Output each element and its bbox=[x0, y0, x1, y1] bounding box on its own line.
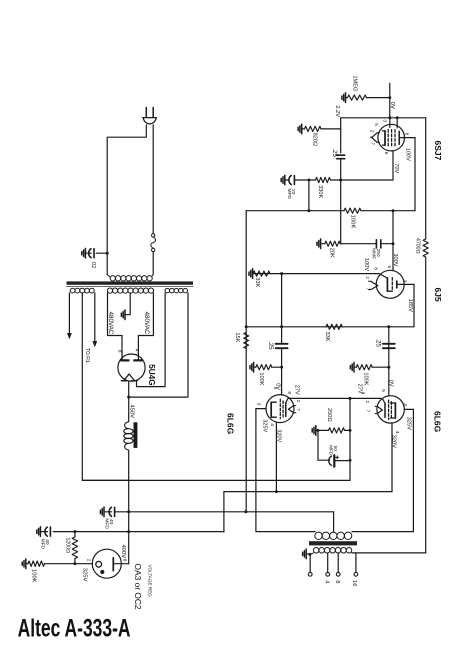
svg-text:2: 2 bbox=[85, 559, 91, 562]
svg-text:4700Ω: 4700Ω bbox=[414, 238, 420, 254]
svg-text:.25: .25 bbox=[375, 338, 382, 347]
svg-text:820Ω: 820Ω bbox=[312, 133, 318, 146]
svg-text:4: 4 bbox=[269, 423, 275, 426]
svg-text:7: 7 bbox=[295, 408, 301, 411]
svg-text:100K: 100K bbox=[258, 372, 264, 385]
wire 325V rail y531 left bbox=[53, 531, 224, 533]
svg-text:MFD: MFD bbox=[104, 518, 110, 529]
terminal 0 bbox=[308, 572, 312, 576]
svg-text:1MEG: 1MEG bbox=[352, 76, 358, 92]
node grid drop B bbox=[396, 116, 399, 119]
wire terminal 8 bbox=[337, 553, 339, 572]
resistor R 20K bbox=[316, 242, 318, 245]
svg-text:4: 4 bbox=[133, 349, 139, 352]
VR tube anode bar bbox=[112, 558, 114, 571]
capacitor C 50MFD cathode bbox=[318, 459, 330, 461]
ground for C.02 bbox=[81, 252, 83, 255]
svg-text:2: 2 bbox=[295, 400, 301, 403]
terminal 8 bbox=[336, 572, 340, 576]
svg-text:3: 3 bbox=[402, 403, 408, 406]
wire cathode-feedback line y480 bbox=[82, 479, 350, 481]
wire fil center-tap to cathode line bbox=[82, 293, 128, 481]
resistor R 4700ohm feedback bbox=[423, 239, 428, 257]
resistor R 33K (y327) bbox=[326, 324, 342, 329]
wire terminal 4 bbox=[327, 553, 329, 572]
wire rect-heater left to 5U4G pin8 bbox=[137, 293, 166, 387]
node y180 junction bbox=[339, 179, 342, 182]
svg-text:TO FIL.: TO FIL. bbox=[84, 348, 90, 365]
6L6G-L heater bbox=[288, 406, 293, 413]
svg-text:33K: 33K bbox=[254, 277, 260, 287]
wire 6J5 plate line (100V node) bbox=[253, 273, 379, 275]
capacitor C .25 input coupling bbox=[337, 154, 345, 156]
wire HV left to 5U4G plate pin6 bbox=[108, 293, 123, 353]
VR tube gas dot bbox=[100, 570, 104, 574]
wire choke to B+ rails bbox=[128, 450, 130, 564]
6SJ7 heater bbox=[372, 133, 378, 143]
wire 6L6G-L screen to rail bbox=[275, 422, 277, 492]
svg-text:2: 2 bbox=[364, 276, 370, 279]
6L6G-R plate bracket bbox=[394, 403, 396, 418]
svg-text:7: 7 bbox=[370, 142, 376, 145]
wire input stub 0V bbox=[389, 83, 391, 117]
wire x309 tie y180-y210 bbox=[308, 180, 310, 211]
node y327 tap bbox=[245, 325, 248, 328]
node right grid resistor bbox=[387, 366, 390, 369]
node coupling left bbox=[280, 272, 283, 275]
fuse F1 bbox=[152, 234, 155, 237]
svg-text:100K: 100K bbox=[363, 372, 369, 385]
pentode V2 6SJ7 envelope bbox=[378, 124, 405, 151]
beam tetrode V4a 6L6G left envelope bbox=[266, 395, 294, 423]
svg-text:27V: 27V bbox=[293, 385, 299, 395]
wire y180 to cathode corner (70V) bbox=[341, 151, 393, 180]
6L6G-L grids dashed bbox=[279, 399, 281, 418]
capacitor C 40MFD (325V rail) bbox=[49, 527, 51, 536]
wire 250ohm to 50MFD bbox=[317, 430, 319, 460]
svg-text:.25: .25 bbox=[331, 149, 337, 158]
svg-text:6L6G: 6L6G bbox=[225, 413, 235, 435]
node 250ohm left bbox=[317, 429, 320, 432]
svg-text:6J5: 6J5 bbox=[433, 288, 443, 302]
svg-text:100K: 100K bbox=[31, 569, 37, 583]
svg-text:450V: 450V bbox=[129, 405, 135, 419]
wire 400V rail to output transformer center tap bbox=[333, 512, 335, 532]
6J5 grid (dashed) bbox=[391, 278, 393, 292]
resistor R 1200ohm bbox=[74, 532, 76, 537]
node screen L bbox=[275, 490, 278, 493]
wire feedback riser x425 bbox=[425, 118, 427, 239]
6SJ7 cathode bar bbox=[398, 131, 400, 144]
wire y118 corner down x341 bbox=[340, 118, 342, 153]
capacitor C 20MFD cathode bypass bbox=[280, 178, 282, 181]
svg-text:7: 7 bbox=[364, 410, 370, 413]
svg-text:1200Ω: 1200Ω bbox=[65, 538, 71, 554]
svg-text:.25: .25 bbox=[267, 341, 274, 350]
AC plug P1 bbox=[145, 108, 147, 118]
svg-text:100V: 100V bbox=[405, 148, 411, 161]
svg-text:70V: 70V bbox=[393, 163, 399, 173]
node grid drop A bbox=[388, 116, 391, 119]
resistor R 250ohm cathode bbox=[311, 429, 313, 432]
wire VR anode to B+ vertical bbox=[113, 563, 128, 565]
VR tube cathode circle bbox=[96, 561, 102, 567]
node rail400 bbox=[127, 510, 130, 513]
wire rect-heater right to B+ node bbox=[129, 293, 188, 397]
svg-text:2: 2 bbox=[364, 400, 370, 403]
wire HV right to 5U4G plate pin4 bbox=[138, 293, 153, 353]
resistor R 33K (plate load) bbox=[248, 272, 250, 275]
svg-text:0V: 0V bbox=[389, 102, 395, 109]
transformer T1 core bbox=[67, 281, 194, 284]
node 330K junction bbox=[307, 209, 310, 212]
svg-text:3: 3 bbox=[401, 280, 407, 283]
svg-text:20K: 20K bbox=[329, 248, 335, 258]
ground 40MFD-1 bbox=[99, 510, 101, 513]
power transformer T1 primary winding bbox=[110, 276, 115, 281]
node AC1 bbox=[106, 252, 109, 255]
6J5 cathode bar bbox=[396, 281, 398, 288]
svg-text:2: 2 bbox=[369, 130, 375, 133]
wire 6L6G-R plate down bbox=[352, 409, 413, 531]
node VR input bbox=[73, 562, 76, 565]
6L6G-L plate lead pin3 bbox=[256, 408, 266, 410]
node 15K feed bbox=[244, 510, 247, 513]
choke core bar bbox=[134, 422, 138, 448]
svg-text:5: 5 bbox=[380, 389, 386, 392]
wire left coupling vertical bbox=[281, 274, 283, 344]
6L6G-R heater bbox=[377, 406, 382, 413]
wire right coupling vertical bbox=[388, 327, 390, 396]
svg-text:5: 5 bbox=[373, 123, 379, 126]
node cathode bus center bbox=[349, 397, 352, 400]
capacitor C 250MMF bbox=[375, 240, 377, 248]
node 50MFD right bbox=[349, 459, 352, 462]
svg-text:3: 3 bbox=[381, 119, 387, 122]
svg-text:6SJ7: 6SJ7 bbox=[433, 141, 443, 161]
svg-text:5U4G: 5U4G bbox=[147, 364, 156, 385]
node 1MEG junction bbox=[388, 96, 391, 99]
wire grid line y118 bbox=[341, 117, 426, 119]
voltage regulator tube V5 envelope bbox=[92, 549, 121, 578]
svg-text:4: 4 bbox=[368, 136, 374, 139]
wire fil-B with arrow bbox=[94, 293, 96, 343]
svg-text:0V: 0V bbox=[274, 383, 280, 390]
T1 filament winding (to output tube heaters) bbox=[70, 288, 75, 293]
svg-text:8: 8 bbox=[404, 133, 410, 136]
wire cathode bus bbox=[288, 397, 381, 399]
T1 rectifier heater winding bbox=[165, 288, 170, 293]
svg-text:8: 8 bbox=[334, 580, 340, 583]
svg-text:320V: 320V bbox=[390, 435, 396, 448]
wire 6L6G-R screen to rail bbox=[391, 423, 393, 492]
resistor R 820ohm cathode bbox=[297, 127, 299, 130]
wire terminal 0 bbox=[309, 554, 311, 572]
ground HV center tap bbox=[120, 313, 122, 316]
wire 6J5 cathode to y327 line bbox=[246, 284, 414, 326]
svg-text:27V: 27V bbox=[356, 384, 362, 394]
wire secondary left to ground bbox=[310, 553, 314, 555]
wire plug-right to fuse bbox=[152, 125, 154, 234]
svg-text:VOLTAGE REG: VOLTAGE REG bbox=[148, 565, 153, 598]
svg-text:33K: 33K bbox=[324, 332, 330, 342]
wire 6J5 grid drop bbox=[392, 211, 394, 271]
svg-text:325V: 325V bbox=[82, 568, 88, 582]
wire plug-left to primary bbox=[107, 125, 146, 275]
svg-text:Altec A-333-A: Altec A-333-A bbox=[18, 614, 131, 642]
svg-text:325V: 325V bbox=[406, 417, 412, 430]
wire plate-supply rail y210 bbox=[246, 210, 344, 212]
6L6G-R grids dashed bbox=[388, 400, 390, 419]
wire 20K to 250MMF bbox=[341, 243, 377, 245]
output transformer T2 primary bbox=[315, 532, 322, 539]
node 6J5 grid feed bbox=[392, 209, 395, 212]
terminal 16 bbox=[354, 572, 358, 576]
5U4G filament bbox=[124, 374, 135, 381]
6J5 plate entry diagonal bbox=[379, 273, 387, 278]
wire 400V rail y511 bbox=[115, 511, 333, 513]
wire 5U4G cathode to choke (450V B+) bbox=[128, 381, 130, 421]
5U4G plate pin 6 bbox=[121, 352, 123, 359]
wire screen rail drop to y511 rail bbox=[223, 492, 225, 532]
wire cathode network vertical bbox=[349, 398, 351, 480]
svg-text:MMF: MMF bbox=[370, 248, 376, 259]
svg-text:15K: 15K bbox=[234, 333, 240, 343]
resistor R 100K bias bleeder bbox=[21, 562, 23, 565]
svg-text:6L6G: 6L6G bbox=[432, 411, 442, 433]
beam tetrode V4b 6L6G right envelope bbox=[377, 396, 404, 423]
6J5 heater bbox=[371, 281, 378, 289]
capacitor C.02 line cap bbox=[96, 252, 107, 254]
node 1200ohm top bbox=[73, 530, 76, 533]
svg-text:MFD: MFD bbox=[286, 189, 292, 200]
wire HV center tap bbox=[125, 293, 130, 315]
svg-text:480VAC: 480VAC bbox=[143, 312, 150, 335]
svg-text:100V: 100V bbox=[363, 258, 369, 271]
wire 6L6G-L plate down bbox=[256, 409, 315, 532]
6SJ7 grid entries bbox=[389, 118, 391, 128]
node 20MFD junction bbox=[307, 179, 310, 182]
ground T2 secondary bbox=[302, 552, 304, 555]
triode V3 6J5 envelope bbox=[376, 270, 404, 298]
resistor R 1MEG grid return bbox=[341, 96, 343, 99]
svg-text:4: 4 bbox=[394, 431, 400, 434]
ground 40MFD-2 bbox=[36, 530, 38, 533]
svg-text:MFD: MFD bbox=[328, 445, 334, 456]
svg-text:3: 3 bbox=[255, 403, 261, 406]
filter choke L1 bbox=[125, 422, 129, 429]
wire fil-A with arrow bbox=[68, 293, 70, 335]
resistor R 330K bbox=[316, 177, 331, 182]
node secondary-left bbox=[308, 553, 311, 556]
node 250ohm right bbox=[349, 429, 352, 432]
T2 secondary bbox=[313, 548, 319, 554]
node B+ 450V bbox=[127, 396, 130, 399]
5U4G plate pin 4 bbox=[137, 352, 139, 359]
svg-text:0V: 0V bbox=[387, 380, 393, 387]
node right coupling bbox=[387, 325, 390, 328]
svg-text:7: 7 bbox=[364, 288, 370, 291]
wire feedback from secondary bbox=[356, 552, 426, 554]
capacitor C 40MFD (400V rail) bbox=[114, 507, 116, 516]
rectifier tube V1 5U4G envelope bbox=[118, 354, 145, 381]
wire rail to 6SJ7 cathode pin8 (100V) bbox=[414, 138, 416, 211]
wire x341 to 20K node bbox=[340, 180, 342, 244]
capacitor C .25 left bbox=[276, 343, 288, 345]
6SJ7 plate bracket bbox=[384, 131, 386, 145]
terminal 4 bbox=[326, 572, 330, 576]
svg-text:8: 8 bbox=[122, 559, 128, 562]
node rail325 bbox=[127, 530, 130, 533]
svg-text:8: 8 bbox=[286, 391, 292, 394]
svg-text:2.2V: 2.2V bbox=[334, 106, 340, 118]
6SJ7 grids (dashed) bbox=[387, 130, 389, 147]
svg-text:8: 8 bbox=[373, 267, 379, 270]
svg-text:5: 5 bbox=[386, 266, 392, 269]
6J5 plate bar bbox=[386, 278, 388, 291]
svg-text:OA3 or OC2: OA3 or OC2 bbox=[133, 564, 143, 610]
6L6G-L cathode bbox=[285, 403, 287, 417]
svg-text:400V: 400V bbox=[120, 545, 126, 559]
svg-text:6: 6 bbox=[117, 350, 123, 353]
node left grid resistor bbox=[280, 366, 283, 369]
svg-text:300V: 300V bbox=[392, 253, 398, 266]
6L6G-R cathode bbox=[384, 403, 386, 417]
T1 HV secondary winding bbox=[107, 288, 112, 293]
svg-text:330K: 330K bbox=[317, 185, 323, 198]
svg-text:100K: 100K bbox=[350, 215, 356, 229]
svg-text:6: 6 bbox=[383, 152, 389, 155]
svg-text:.02: .02 bbox=[90, 261, 96, 269]
wire terminal 16 bbox=[352, 553, 356, 572]
svg-text:MFD: MFD bbox=[40, 539, 46, 550]
node 250MMF junction bbox=[392, 242, 395, 245]
svg-text:185V: 185V bbox=[407, 299, 413, 312]
svg-text:250Ω: 250Ω bbox=[326, 408, 332, 422]
resistor R 100K right grid bbox=[349, 366, 351, 369]
resistor R 100K (rail y210) bbox=[344, 208, 361, 213]
wire 6J5 cathode out pin3 bbox=[397, 283, 414, 285]
node left coupling bbox=[280, 325, 283, 328]
wire fuse to primary bbox=[152, 252, 154, 275]
6L6G-R plate lead pin3 bbox=[404, 408, 413, 410]
resistor R 100K left grid bbox=[249, 366, 251, 369]
T2 core bbox=[309, 541, 357, 545]
svg-text:16: 16 bbox=[351, 580, 357, 586]
svg-text:325V: 325V bbox=[261, 419, 267, 432]
capacitor C .25 right bbox=[383, 343, 395, 345]
wire B+ riser x246 bbox=[245, 211, 247, 512]
wire screen rail y491 bbox=[224, 491, 392, 493]
resistor R 15K (in riser) bbox=[244, 333, 249, 349]
6L6G-L plate bracket bbox=[270, 402, 272, 417]
